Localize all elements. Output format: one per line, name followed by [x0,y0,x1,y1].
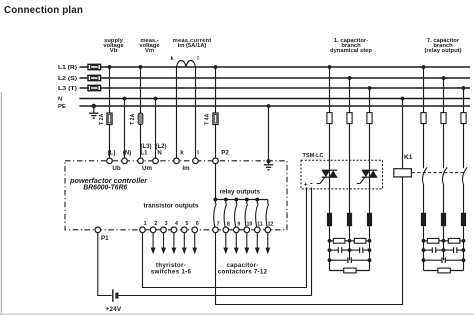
arrow output 12 [265,233,270,255]
terminal 4 [171,221,178,233]
svg-text:contactors 7-12: contactors 7-12 [218,268,268,275]
label plus minus [304,179,313,189]
svg-text:7: 7 [217,221,220,227]
svg-text:(N): (N) [123,150,131,156]
svg-text:Vm: Vm [145,48,154,54]
terminal P1 [95,227,109,242]
svg-text:(relay output): (relay output) [424,48,461,54]
ground at controller [264,159,273,170]
terminal 6 [192,221,199,233]
wire Vb L drop [108,65,112,158]
wire Vm N drop [154,97,158,158]
svg-text:dynamical step: dynamical step [330,48,372,54]
reactor L5 [441,213,446,226]
wire l drop [195,67,197,158]
label 7. capacitor branch relay output [424,38,461,54]
svg-text:8: 8 [227,221,230,227]
K1 linkage [412,172,464,174]
wire output1 to TSM-LC plus [143,187,307,287]
wire bank7 row1 [424,240,464,242]
capacitor bank7 C6 [441,257,443,263]
node L2 to branch 7 [442,76,446,80]
label powerfactor controller BR6000-T6R6 [69,178,148,191]
wire PE drop to controller [267,104,271,161]
fuse on L2 [88,75,101,80]
svg-text:Im (5A/1A): Im (5A/1A) [178,43,207,49]
wire branch7 phase L1 [423,67,425,168]
wire bank1 row3 [330,259,370,261]
terminal 5 [182,221,189,233]
svg-text:T 2A: T 2A [99,113,105,124]
reactor L1 [327,213,332,226]
relay contact 11 [256,200,259,228]
svg-text:transistor outputs: transistor outputs [144,203,200,210]
wire branch7 below reactors [424,226,464,270]
reactor L4 [421,213,426,226]
label thyristor-switches 1-6 [151,262,192,276]
wire battery to TSM-LC minus [118,187,311,295]
node L3 to branch 1 [368,86,372,90]
wire Vm L1 drop [139,65,143,158]
capacitor bank7 C4 [431,247,433,253]
terminal l [193,158,199,164]
wire bank1 row4 [330,270,370,272]
wire branch7 phase L3 [463,88,465,168]
terminal 8 [223,221,230,232]
fuse branch7 L2 [441,113,446,124]
junction relay bus 7 [214,198,218,202]
fuse branch7 L3 [461,113,466,124]
svg-text:relay outputs: relay outputs [220,188,261,195]
junction bank1 row2 [328,248,372,252]
terminal 2 [150,221,157,233]
svg-text:P2: P2 [221,149,229,156]
wire branch1 phase L3 [369,88,371,271]
battery +24V [106,289,122,312]
svg-text:L1 (R): L1 (R) [58,65,77,71]
wire relay bus [216,199,268,201]
terminal (L) [107,158,113,164]
thyristor module V2 [357,170,378,183]
wire relay bus end [267,200,269,205]
junction bank7 row3 [422,258,466,262]
svg-text:N: N [58,97,62,103]
svg-text:1: 1 [144,221,147,227]
arrow output 8 [223,233,228,255]
wire bus PE [80,105,471,107]
arrow output 10 [244,233,249,255]
junction relay bus 10 [245,198,249,202]
junction bank1 row1 [328,239,372,243]
svg-text:l: l [197,149,199,156]
wire bank1 row2 [330,249,370,251]
wire bus N [80,98,471,100]
terminal 11 [254,221,262,232]
wire N to K1 coil [402,99,404,169]
capacitor bank7 C5 [453,247,455,253]
fuse T2A (Vm) [130,113,143,125]
svg-text:(L3): (L3) [141,144,152,150]
arrow output 6 [192,233,197,255]
ground on PE [89,104,98,118]
junction relay bus 9 [234,198,238,202]
terminal 12 [265,221,273,232]
svg-text:k: k [180,149,184,156]
svg-text:9: 9 [237,221,240,227]
wire k drop [176,67,178,158]
wire P2 to relay bus [215,164,217,200]
capacitor bank1 C2 [359,247,361,253]
svg-text:Im: Im [182,165,190,172]
svg-text:Ub: Ub [112,165,120,172]
junction relay bus 8 [224,198,228,202]
terminal L1 [138,158,144,164]
node L2 to branch 1 [348,76,352,80]
contactor coil K1 [394,154,413,177]
arrow output 11 [255,233,260,255]
svg-text:+: + [304,181,308,188]
node L3 to branch 7 [462,86,466,90]
terminal 9 [234,221,241,232]
terminal 7 [213,221,220,232]
svg-text:(L2): (L2) [156,144,167,150]
svg-text:BR6000-T6R6: BR6000-T6R6 [83,184,127,191]
label meas voltage Vm [139,38,160,54]
wire branch1 phase L2 [349,78,351,260]
svg-text:PE: PE [58,104,66,110]
relay contact 10 [245,200,248,228]
wire bank1 row1 [330,240,370,242]
terminal 10 [244,221,252,232]
svg-text:Vb: Vb [110,48,118,54]
resistor bank1 R3 [344,268,356,273]
resistor bank1 R2 [354,238,366,243]
relay contact 7 [214,200,217,228]
reactor L6 [461,213,466,226]
wire bus L1 [80,66,471,68]
svg-text:Um: Um [142,165,152,172]
wire branch7 phase L2 [443,78,445,168]
fuse on L3 [88,85,101,90]
wire P2 drop [214,65,218,158]
fuse branch1 L2 [347,113,352,124]
svg-text:(L): (L) [108,150,116,156]
svg-text:P1: P1 [101,235,109,242]
K1 contact 2 [442,167,447,212]
powerfactor controller box U1 [65,161,287,230]
label 1. capacitor branch dynamical step [330,38,372,54]
terminal N [153,158,159,164]
svg-text:2: 2 [154,221,157,227]
terminal P2 [213,158,219,164]
capacitor bank1 C1 [337,247,339,253]
wire branch1 phase L1 [329,67,331,271]
resistor bank7 R4 [427,238,439,243]
TSM-LC box [301,160,383,189]
arrow output 2 [151,233,156,255]
svg-text:5: 5 [185,221,188,227]
arrow output 9 [234,233,239,255]
current transformer k/l [170,56,199,67]
fuse on L1 [88,64,101,69]
wire bank7 row2 [424,249,464,251]
junction bank7 row2 [422,248,466,252]
reactor L3 [367,213,372,226]
fuse branch1 L1 [327,113,332,124]
svg-text:T 4A: T 4A [204,113,210,124]
svg-text:4: 4 [175,221,178,227]
fuse T2A (Vb) [99,113,112,125]
arrow output 5 [182,233,187,255]
resistor bank7 R6 [438,268,450,273]
resistor bank1 R1 [333,238,345,243]
fuse branch1 L3 [367,113,372,124]
svg-text:K1: K1 [404,154,413,161]
label supply voltage Vb [103,38,124,54]
wire bank7 row3 [424,259,464,261]
relay contact 9 [235,200,238,228]
arrow output 4 [172,233,177,255]
svg-text:3: 3 [165,221,168,227]
wire Vb N drop [123,97,127,158]
terminal 1 [140,221,147,233]
svg-text:switches 1-6: switches 1-6 [151,268,192,275]
junction bank7 row1 [422,239,466,243]
svg-text:L1: L1 [140,150,148,156]
fuse branch7 L1 [421,113,426,124]
K1 contact 1 [422,167,427,212]
svg-text:TSM-LC: TSM-LC [303,153,324,159]
resistor bank7 R5 [448,238,460,243]
svg-text:6: 6 [196,221,199,227]
node N to K1 coil [401,97,405,101]
wire bank7 row4 [424,270,464,272]
thyristor module V1 [317,170,338,183]
svg-text:T 2A: T 2A [130,113,136,124]
label meas current Im [173,38,212,49]
capacitor bank1 C3 [347,257,349,263]
relay contact 12 [266,204,269,228]
svg-text:L2 (S): L2 (S) [58,76,77,82]
svg-text:L3 (T): L3 (T) [58,86,77,92]
junction bank1 row3 [328,258,372,262]
reactor L2 [347,213,352,226]
terminal 3 [161,221,168,233]
junction relay bus 11 [255,198,259,202]
wire bus L2 [80,77,471,79]
label capacitor-contactors 7-12 [218,262,268,276]
terminal k [174,158,180,164]
node L1 to branch 7 [422,65,426,69]
node L1 to branch 1 [328,65,332,69]
svg-text:N: N [157,150,161,156]
svg-text:Connection plan: Connection plan [4,5,83,16]
terminal (N) [122,158,128,164]
svg-text:+24V: +24V [106,306,122,313]
arrow output 3 [161,233,166,255]
K1 contact 3 [462,167,467,212]
scan edge artifacts (decorative) [1,92,2,315]
svg-text:-: - [310,179,313,188]
wire P1 to battery [98,233,112,296]
fuse T4A [204,113,218,125]
wire output7 to K1 coil [216,177,403,305]
wire bus L3 [80,87,471,89]
relay contact 8 [224,200,227,228]
